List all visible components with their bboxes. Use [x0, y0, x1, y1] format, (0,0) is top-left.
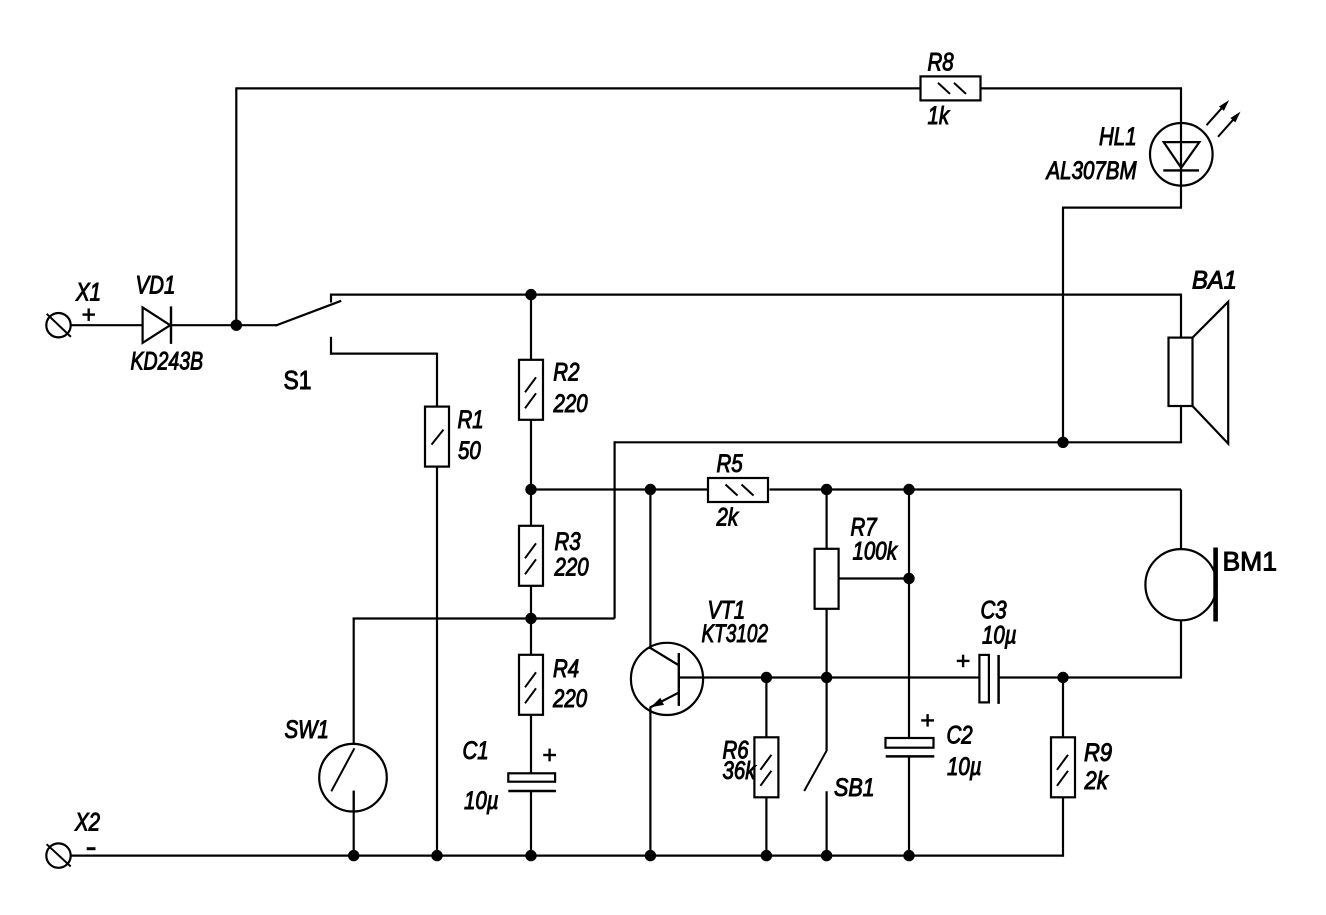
node R6 top: [761, 672, 772, 683]
node ground C2: [903, 850, 914, 861]
svg-text:2k: 2k: [1084, 767, 1109, 795]
wire R7 top lead: [825, 490, 827, 550]
label VD1 type KD243B: [131, 347, 204, 375]
wire R7 tap to C2: [839, 577, 909, 579]
wire VD1 cathode to node A: [171, 324, 277, 326]
label R2 value 220: [553, 389, 588, 417]
led HL1: [1150, 100, 1241, 186]
resistor R8: [921, 76, 981, 100]
label VD1: [136, 270, 176, 298]
svg-text:220: 220: [552, 684, 587, 712]
node R7 tap junction: [903, 573, 914, 584]
svg-text:AL307BM: AL307BM: [1045, 156, 1138, 184]
switch SW1: [319, 744, 387, 812]
label R4: [553, 654, 579, 682]
svg-text:R5: R5: [717, 449, 743, 477]
label C2 polarity +: [921, 714, 934, 727]
diode VD1: [143, 306, 171, 344]
wire BM1 bottom lead: [1180, 620, 1182, 679]
label C3 value 10µ: [982, 621, 1017, 649]
resistor R9: [1051, 737, 1075, 797]
label R6 value 36k: [723, 756, 757, 784]
node R7-base junction: [821, 672, 832, 683]
wire X1 to VD1: [71, 324, 143, 326]
svg-text:R2: R2: [553, 358, 579, 386]
svg-text:VD1: VD1: [136, 270, 176, 298]
svg-text:10µ: 10µ: [464, 786, 499, 814]
node VT1 collector junction: [645, 484, 656, 495]
capacitor C2: [886, 738, 935, 756]
label R4 value 220: [552, 684, 587, 712]
wire VT1 collector: [650, 490, 679, 666]
svg-text:KT3102: KT3102: [702, 619, 769, 647]
resistor R4: [519, 655, 543, 715]
svg-text:X2: X2: [74, 808, 100, 836]
capacitor C3: [979, 655, 998, 704]
resistor R1: [425, 407, 449, 467]
svg-text:36k: 36k: [723, 756, 757, 784]
label R3: [555, 527, 581, 555]
node R2 top: [525, 289, 536, 300]
wire top rail: [236, 87, 1182, 89]
wire C2 top lead: [908, 490, 910, 739]
speaker BA1: [1169, 302, 1229, 444]
label R2: [553, 358, 579, 386]
wire R6 bottom lead: [765, 797, 767, 856]
wire BM1 top lead: [1180, 490, 1182, 551]
label VT1 type KT3102: [702, 619, 769, 647]
wire R9 top lead: [1062, 678, 1064, 739]
svg-text:220: 220: [553, 389, 588, 417]
svg-text:R3: R3: [555, 527, 581, 555]
svg-text:SW1: SW1: [285, 715, 329, 743]
wire S1 lower contact to R1: [330, 337, 437, 408]
wire SW1 top lead: [353, 618, 355, 745]
transistor VT1: [631, 643, 703, 715]
svg-text:S1: S1: [284, 367, 312, 396]
wire speaker bottom lead: [1180, 405, 1182, 443]
svg-text:R4: R4: [553, 654, 579, 682]
label X1 polarity +: [83, 308, 96, 321]
wire SW1 bottom lead: [353, 791, 355, 856]
capacitor C1: [508, 773, 556, 791]
svg-text:2k: 2k: [716, 502, 740, 530]
label R9: [1084, 739, 1112, 767]
svg-text:1k: 1k: [928, 101, 951, 129]
node ground R6: [761, 850, 772, 861]
label R7: [851, 513, 878, 541]
microphone BM1: [1145, 548, 1218, 622]
label C1 value 10µ: [464, 786, 499, 814]
node ground C1: [525, 850, 536, 861]
svg-text:HL1: HL1: [1099, 122, 1137, 150]
svg-text:R8: R8: [928, 48, 954, 76]
label BM1: [1223, 547, 1278, 577]
wire speaker bottom rail y442: [615, 441, 1181, 443]
wire R4 to C1: [530, 714, 532, 775]
node ground VT1 emitter: [645, 850, 656, 861]
label C2 value 10µ: [947, 752, 982, 780]
terminal X2: [46, 843, 70, 867]
svg-text:BA1: BA1: [1192, 267, 1237, 295]
label C3: [981, 596, 1007, 624]
wire SB1 bottom lead: [825, 791, 827, 855]
wire VT1 emitter to ground: [649, 707, 651, 856]
wire R7 bottom to SB1: [825, 608, 827, 751]
wire speaker top lead: [1180, 295, 1182, 339]
wire ground rail: [71, 854, 1065, 856]
node R3-R4 junction: [525, 613, 536, 624]
wire HL1 cathode path: [1062, 207, 1182, 443]
svg-text:C2: C2: [947, 720, 973, 748]
wire R2 to R3: [530, 419, 532, 527]
wire SW1 to R3-R4 node: [353, 617, 615, 619]
svg-text:BM1: BM1: [1223, 547, 1278, 577]
switch S1 blade: [276, 301, 342, 326]
wire R3 to R4: [530, 585, 532, 656]
wire R6 top lead: [765, 678, 767, 739]
wire R9 bottom lead: [1062, 796, 1064, 857]
label R8: [928, 48, 954, 76]
resistor R6: [754, 737, 778, 797]
label S1: [284, 367, 312, 396]
svg-text:X1: X1: [75, 277, 101, 305]
label X1: [75, 277, 101, 305]
label SW1: [285, 715, 329, 743]
label VT1: [708, 596, 746, 624]
node ground SW1: [348, 850, 359, 861]
label X2: [74, 808, 100, 836]
label C2: [947, 720, 973, 748]
svg-text:10µ: 10µ: [947, 752, 982, 780]
node ground R1: [431, 850, 442, 861]
node C3-R9 junction: [1057, 672, 1068, 683]
label X2 polarity -: [87, 847, 96, 850]
wire R1 bottom to ground rail: [436, 465, 438, 856]
resistor R2: [519, 360, 543, 420]
resistor R7: [815, 549, 839, 609]
node C2 top: [903, 484, 914, 495]
resistor R3: [519, 526, 543, 586]
node ground SB1: [821, 850, 832, 861]
label C1: [463, 736, 489, 764]
svg-text:100k: 100k: [853, 537, 899, 565]
node R7 top: [821, 484, 832, 495]
label R1: [458, 405, 484, 433]
label HL1 type AL307BM: [1045, 156, 1138, 184]
label C3 polarity +: [957, 655, 970, 668]
wire mid rail y489: [531, 488, 1181, 490]
label R9 value 2k: [1084, 767, 1109, 795]
svg-text:R1: R1: [458, 405, 484, 433]
wire C1 to ground rail: [530, 791, 532, 856]
label BA1: [1192, 267, 1237, 295]
terminal X1: [46, 313, 71, 337]
wire C2 bottom lead: [908, 756, 910, 856]
svg-text:50: 50: [458, 436, 481, 464]
label R5: [717, 449, 743, 477]
label R7 value 100k: [853, 537, 899, 565]
label R6: [723, 735, 749, 763]
label R3 value 220: [554, 553, 589, 581]
svg-text:220: 220: [554, 553, 589, 581]
pushbutton SB1: [804, 750, 827, 791]
node A: [231, 320, 242, 331]
svg-text:C1: C1: [463, 736, 489, 764]
label R1 value 50: [458, 436, 481, 464]
resistor R5: [708, 478, 768, 502]
label SB1: [834, 773, 875, 801]
wire HL1 anode lead: [1180, 87, 1182, 207]
label R8 value 1k: [928, 101, 951, 129]
label C1 polarity +: [543, 749, 556, 762]
svg-text:SB1: SB1: [834, 773, 875, 801]
svg-text:KD243B: KD243B: [131, 347, 204, 375]
svg-text:R9: R9: [1084, 739, 1112, 767]
node R2-R3 junction: [525, 484, 536, 495]
wire R2 top lead: [530, 295, 532, 361]
wire feedback riser x614: [613, 441, 615, 618]
label R5 value 2k: [716, 502, 740, 530]
wire S1 top contact rail: [330, 294, 1182, 303]
wire node A riser: [235, 87, 237, 325]
svg-text:10µ: 10µ: [982, 621, 1017, 649]
label HL1: [1099, 122, 1137, 150]
node HL1-speaker junction: [1057, 437, 1068, 448]
wire VT1 base rail: [679, 676, 1181, 678]
